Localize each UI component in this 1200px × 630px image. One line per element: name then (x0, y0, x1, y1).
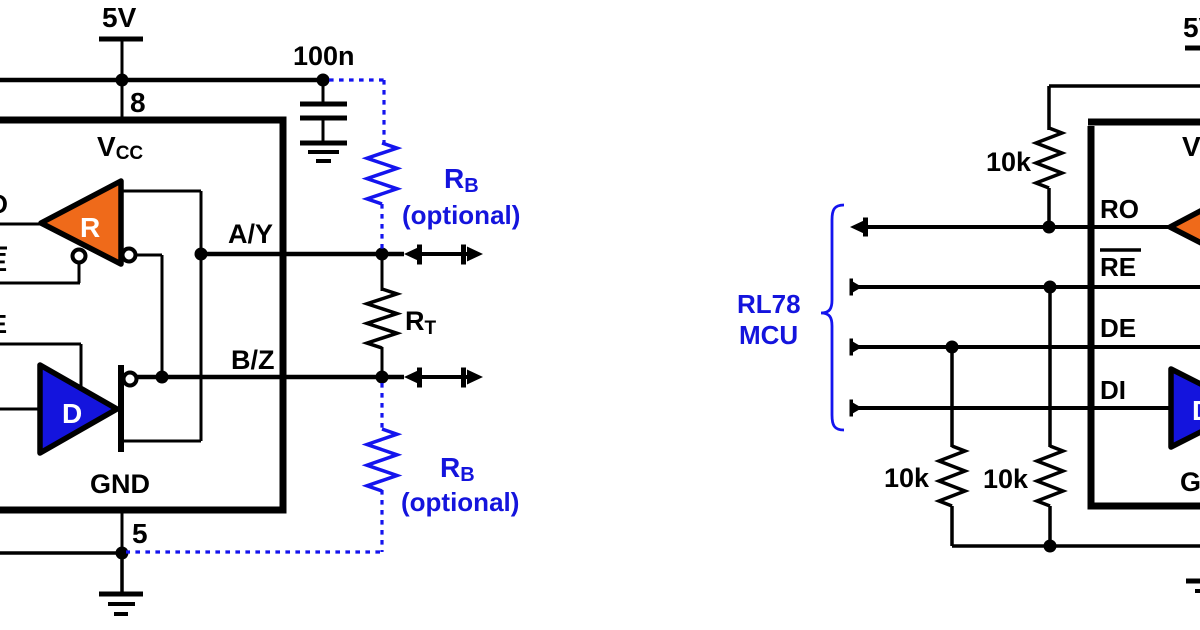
svg-text:D: D (1192, 395, 1200, 426)
receiver U1-R (41, 181, 121, 264)
arrow DE from MCU (851, 341, 862, 354)
svg-text:8: 8 (130, 87, 146, 118)
wire B/Z (136, 375, 404, 380)
resistor R1 10k pull-up (986, 128, 1062, 227)
wire R input A loop (121, 191, 201, 441)
svg-text:B/Z: B/Z (231, 345, 275, 375)
node GND rail junction (1044, 540, 1057, 553)
svg-text:GND: GND (1180, 467, 1200, 497)
svg-text:5V: 5V (1183, 12, 1200, 43)
RL78 MCU label (737, 289, 801, 350)
wire RE (0, 261, 80, 283)
svg-text:DI: DI (1100, 375, 1126, 405)
svg-text:(optional): (optional) (401, 487, 519, 517)
svg-text:D: D (62, 398, 82, 429)
svg-text:10k: 10k (884, 463, 930, 493)
svg-text:(optional): (optional) (402, 200, 520, 230)
wire GND rail (0, 551, 122, 555)
arrow RE from MCU (851, 281, 862, 294)
wire DE pull-down leg (950, 347, 954, 447)
resistor RT (367, 254, 437, 377)
pin bubble D inverting output Z (124, 373, 137, 386)
svg-text:RE: RE (1100, 252, 1136, 282)
svg-text:MCU: MCU (739, 320, 798, 350)
node B/Z internal (156, 371, 169, 384)
wire DI (0, 408, 42, 411)
wire RO (right) (855, 225, 1170, 229)
5V supply symbol (99, 2, 143, 80)
arrow DI from MCU (851, 402, 862, 415)
node B/Z bus junction (376, 371, 389, 384)
svg-text:VCC: VCC (1182, 131, 1200, 164)
pin 5 stub (121, 510, 124, 553)
wire RE (right) (855, 285, 1200, 289)
wire RO (0, 223, 44, 226)
svg-text:RO: RO (0, 189, 8, 219)
svg-text:DE: DE (0, 309, 7, 339)
svg-text:RL78: RL78 (737, 289, 801, 319)
driver U1-D (40, 365, 117, 453)
wire RB bias dashed (blue) (126, 80, 384, 552)
driver U2-D (clipped) (1171, 369, 1200, 447)
resistor RB (upper, optional) (367, 143, 520, 230)
svg-text:5: 5 (132, 518, 148, 549)
wire A/Y (201, 252, 404, 257)
ground (left circuit) (99, 553, 143, 614)
svg-text:GND: GND (90, 469, 150, 499)
arrow B/Z bus double arrow (404, 368, 483, 388)
wire DI (right) (855, 406, 1171, 410)
resistor R2 10k (DE pull-down) (884, 446, 965, 546)
5V supply symbol (right, clipped) (1183, 12, 1200, 48)
svg-text:R: R (80, 212, 100, 243)
svg-text:10k: 10k (983, 464, 1029, 494)
ground (right, clipped) (1186, 581, 1200, 591)
node A/Y bus junction (376, 248, 389, 261)
resistor RB (lower, optional) (367, 429, 519, 517)
svg-text:RE: RE (0, 247, 7, 277)
svg-text:RO: RO (1100, 194, 1139, 224)
pin bubble RE enable (73, 250, 86, 263)
ground (capacitor) (300, 143, 347, 161)
svg-text:5V: 5V (102, 2, 137, 33)
node RE junction (1044, 281, 1057, 294)
node VCC junction (116, 74, 129, 87)
svg-text:DE: DE (1100, 313, 1136, 343)
pin 8 stub (121, 80, 124, 118)
wire 5V rail (0, 78, 323, 83)
arrow RO to MCU (850, 220, 866, 235)
resistor R3 10k (RE pull-down) (983, 446, 1063, 546)
wire RE pull-down leg (1048, 287, 1052, 447)
brace RL78 MCU (821, 205, 844, 430)
IC U2 package outline (right transceiver) (1091, 126, 1200, 506)
node RO junction (1043, 221, 1056, 234)
wire GND rail (right) (952, 544, 1200, 548)
IC U1 package outline (left transceiver) (0, 120, 283, 510)
node GND junction (116, 547, 129, 560)
capacitor C1 100n (293, 41, 355, 141)
svg-text:A/Y: A/Y (228, 219, 273, 249)
wire R input B to B/Z (135, 255, 162, 377)
receiver U2-R (clipped) (1170, 185, 1200, 268)
wire DE (0, 344, 81, 389)
pin bubble R inverting input B (123, 249, 136, 262)
node cap junction (317, 74, 330, 87)
wire DE (right) (855, 345, 1200, 349)
wire 5V rail (right) (1049, 86, 1200, 130)
node DE junction (946, 341, 959, 354)
arrow A/Y bus double arrow (404, 245, 483, 265)
node A/Y internal (195, 248, 208, 261)
svg-text:100n: 100n (293, 41, 355, 71)
svg-text:10k: 10k (986, 147, 1032, 177)
driver output bar (118, 365, 124, 452)
